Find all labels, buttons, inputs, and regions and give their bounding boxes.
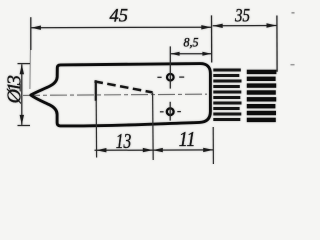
center line (horizontal chain axis) xyxy=(23,94,207,95)
top dimension line 45 xyxy=(31,26,211,29)
arrow Ø13 down xyxy=(20,115,24,125)
internal hidden element (bold dashed line) xyxy=(95,81,153,92)
arrow 35 left xyxy=(213,24,223,28)
cable hatch block 1 xyxy=(213,69,241,122)
hole 1 xyxy=(167,74,174,81)
tick top xyxy=(18,63,31,65)
arrow Ø13 up xyxy=(20,64,24,74)
hole 1 left tick xyxy=(157,76,161,78)
svg-text:Ø13: Ø13 xyxy=(4,75,26,105)
svg-text:13: 13 xyxy=(116,129,132,153)
extension line left (from internal element, down through body) xyxy=(95,101,97,158)
bold tick at start of dashed element xyxy=(95,80,97,101)
svg-text:8,5: 8,5 xyxy=(184,34,199,49)
hole 2 vertical centerline xyxy=(169,102,171,121)
hole 2 xyxy=(167,108,174,115)
hole 1 vertical centerline xyxy=(169,46,171,88)
arrow 11 left xyxy=(153,148,163,152)
body outline (probe with pointed tip) xyxy=(31,64,211,126)
dimension 8,5 xyxy=(171,53,212,55)
extension line 45 left (tip of nose) xyxy=(30,17,32,50)
scan speck top right xyxy=(292,12,295,14)
arrow 45 right xyxy=(201,25,211,29)
extension line 35 right xyxy=(276,16,278,72)
hole 2 left tick xyxy=(160,111,164,113)
extension line middle (bottom dims) xyxy=(152,93,155,161)
bottom dimension line xyxy=(95,149,214,151)
arrow 13 left xyxy=(96,148,106,152)
extension line right bottom xyxy=(212,127,214,164)
arrow 35 right xyxy=(267,23,277,27)
hole 2 right tick xyxy=(177,111,181,113)
tick bottom xyxy=(18,125,31,127)
dimension 35 xyxy=(213,25,277,27)
arrow 8,5 left xyxy=(171,52,180,56)
svg-text:11: 11 xyxy=(179,127,196,151)
arrow 8,5 right xyxy=(202,52,211,56)
scan speck right mid xyxy=(291,64,295,65)
arrow 45 left xyxy=(31,26,41,30)
cable hatch block 2 xyxy=(247,70,277,122)
extension line shared right (body right edge) xyxy=(211,15,213,62)
dimension Ø13 vertical xyxy=(21,64,23,125)
svg-text:45: 45 xyxy=(110,6,129,27)
svg-text:35: 35 xyxy=(234,7,250,27)
arrow 13 right xyxy=(143,148,153,152)
hole 1 right tick xyxy=(179,76,184,78)
arrow 11 right xyxy=(203,148,213,152)
